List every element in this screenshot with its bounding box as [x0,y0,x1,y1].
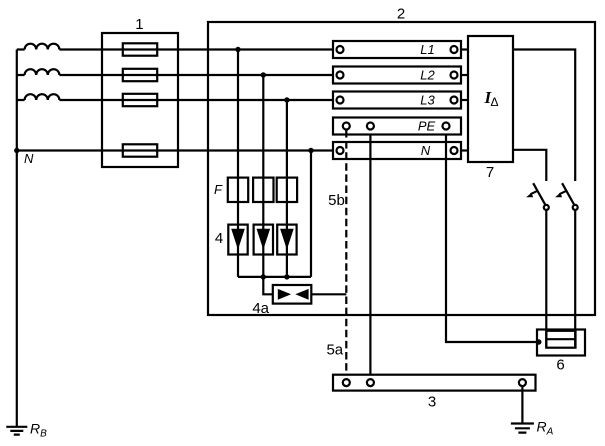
wire N bar to RCD [461,149,468,151]
svg-text:PE: PE [418,119,436,134]
wire L2 bar to RCD [461,74,468,76]
switch S1 actuator arrow [531,191,538,194]
busbar L3 [333,92,461,109]
fuse in box 1 on L2 [123,69,157,81]
wire 4a to PE conductor [311,293,346,295]
wire switch S2 to box 6 [574,210,576,348]
svg-text:F: F [214,182,223,197]
SPD arrester 4 phase L2 [254,225,273,255]
wire PE terminal 2 down to earth bar 3 [369,135,371,379]
wire L3 tap down to fuse F3 [286,100,288,277]
svg-text:RB: RB [30,421,47,440]
terminal L3 right [451,97,458,104]
wire L3 bar to RCD [461,99,468,101]
svg-text:4: 4 [215,230,223,247]
enclosure box 1 [102,33,178,167]
svg-text:1: 1 [135,16,143,33]
SPD arrester 4 phase L1 [228,225,247,255]
svg-text:5b: 5b [328,192,345,209]
svg-text:N: N [421,143,431,158]
junction dot N star point [14,148,19,153]
terminal earth bar left (5a) [343,379,350,386]
svg-text:4a: 4a [252,300,269,317]
terminal N left [337,147,344,154]
junction dot L2 tap [261,72,266,77]
svg-text:RA: RA [537,419,554,438]
SPD arrester 4 phase L3 [277,225,296,255]
svg-text:3: 3 [428,394,436,411]
ground symbol RA [511,424,534,433]
svg-text:5a: 5a [326,342,343,359]
terminal L3 left [337,97,344,104]
wire L1 line [17,48,333,50]
wire L2 tap down to fuse F2 [262,75,264,277]
wire source star point to earth RB [16,50,18,427]
spark gap SPD 4a [273,285,312,304]
terminal L1 right [451,46,458,53]
terminal N right [451,147,458,154]
junction dot N tap [308,148,313,153]
terminal earth bar right [519,379,526,386]
wire RCD bottom output to switch 1 [513,150,546,181]
wire L1 bar to RCD [461,48,468,50]
fuse in box 6 [546,331,575,348]
inductor source winding L1 [25,44,60,50]
junction dot L3 tap [284,97,289,102]
wire RCD top output to switch 2 [513,50,575,182]
wire N line [17,149,333,151]
wire L2 line [17,74,333,76]
terminal L2 left [337,72,344,79]
wire PE right terminal down and across to box 6 [446,135,539,343]
terminal L1 left [337,46,344,53]
busbar L2 [333,67,461,84]
switch S1 contact circle [544,205,549,210]
busbar L1 [333,41,461,58]
wire switch S1 to box 6 [545,210,547,348]
fuse F3 [277,178,297,202]
junction dot rail L3 [284,274,289,279]
switch S2 blade [562,183,574,205]
terminal L2 right [451,72,458,79]
terminal PE 2 [367,123,374,130]
svg-text:L3: L3 [420,93,435,108]
terminal PE right [443,123,450,130]
fuse in box 1 on L3 [123,94,157,106]
RCD box 7 [468,36,513,162]
busbar N [333,142,461,159]
enclosure box 6 [537,330,585,356]
busbar PE [333,118,461,135]
terminal earth bar middle [367,379,374,386]
wire L3 line [17,99,333,101]
svg-text:L2: L2 [420,68,435,83]
svg-text:Δ: Δ [491,95,499,109]
wire SPD common rail [238,276,311,278]
svg-text:6: 6 [556,357,564,374]
terminal PE 1 [343,123,350,130]
svg-text:N: N [24,151,34,166]
switch S2 contact circle [573,205,578,210]
switch S1 blade [533,183,545,205]
wire N tap down to SPD rail [310,151,312,277]
svg-text:L1: L1 [420,42,434,57]
enclosure box 2 [208,22,595,315]
dashed PE conductor 5b/5a [345,130,347,379]
fuse 6 through conductor [546,338,575,340]
wire L1 tap down to fuse F1 [237,50,239,277]
junction dot rail-4a [261,274,266,279]
wire earth bar to earth RA [521,386,523,423]
fuse in box 1 on L1 [123,43,157,55]
fuse F2 [253,178,273,202]
svg-text:7: 7 [486,164,494,181]
wire rail to spark gap 4a [263,277,273,294]
junction dot PE wire at box 6 [536,339,541,344]
inductor source winding L2 [25,69,60,75]
fuse F1 [228,178,248,202]
earth bar 3 [333,375,536,391]
ground symbol RB [6,427,27,435]
junction dot L1 tap [235,47,240,52]
switch S2 actuator arrow [559,191,566,194]
inductor source winding L3 [25,94,60,100]
svg-text:2: 2 [397,6,405,23]
fuse in box 1 on N [123,144,157,156]
